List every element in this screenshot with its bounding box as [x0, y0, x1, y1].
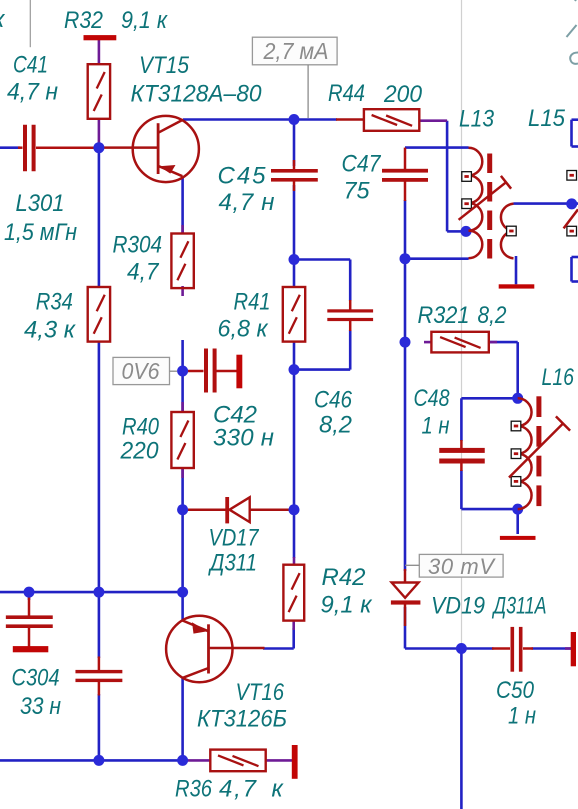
lead C47 bottom	[404, 180, 407, 201]
junction dot node A	[289, 114, 300, 125]
wire node A down through C45 to node B	[293, 120, 296, 260]
label Д311	[207, 550, 257, 577]
svg-text:2,7 мА: 2,7 мА	[263, 38, 329, 64]
wire C47 bottom to node D	[404, 200, 407, 259]
transistor VT16	[166, 616, 232, 682]
capacitor mid	[75, 670, 122, 682]
label C48	[414, 385, 451, 412]
label 4,7	[127, 259, 160, 286]
junction dot VD17 right	[289, 504, 300, 515]
lead R32 top	[98, 39, 101, 65]
label 200	[383, 81, 423, 108]
label L301	[16, 190, 65, 217]
label R42	[322, 564, 366, 591]
lead C304 top	[28, 597, 31, 617]
wire R40 bottom to VD17 left node	[181, 468, 184, 510]
svg-text:R40: R40	[122, 414, 160, 441]
wire base node vertical R32-R34 column	[98, 142, 101, 288]
svg-text:L15: L15	[528, 105, 566, 132]
svg-text:C47: C47	[342, 151, 382, 178]
svg-text:1 н: 1 н	[422, 413, 450, 440]
svg-text:L13: L13	[459, 106, 495, 133]
junction dot C304 rail	[24, 587, 35, 598]
label C304	[12, 665, 60, 692]
lead R36 right	[266, 759, 292, 762]
label 9,1 к	[321, 592, 374, 619]
label 4,7	[219, 776, 258, 803]
lead C42 right	[217, 370, 237, 373]
wire node D down to R321 node	[404, 259, 407, 342]
wire node B down through R41 to node C	[293, 260, 296, 370]
label fragment к top-left	[0, 6, 6, 33]
label 6,8 к	[218, 316, 270, 343]
label R40	[122, 414, 160, 441]
label L15	[528, 105, 566, 132]
resistor R34	[88, 287, 110, 342]
power bar top	[84, 35, 117, 40]
label fragment top-right 1	[575, 0, 578, 1]
label fragment top-right 3	[570, 53, 578, 64]
wire L13 secondary bottom to ground bar	[515, 256, 518, 284]
wire VD17 left node down to emitter rail	[181, 510, 184, 592]
svg-text:C41: C41	[13, 52, 48, 79]
label C47	[342, 151, 382, 178]
pin square L16 3	[511, 477, 521, 487]
wire R304 bottom to 0V6 node	[181, 340, 184, 371]
svg-text:9,1 к: 9,1 к	[321, 592, 374, 619]
lead R40 bottom	[181, 468, 184, 479]
label fragment top-right 2	[567, 25, 577, 37]
wire bottom rail y760	[0, 759, 185, 762]
junction dot L16 bottom	[512, 504, 523, 515]
junction dot node D	[400, 253, 411, 264]
wire VT16 collector down to bottom rail	[181, 678, 184, 761]
label VT15	[139, 52, 190, 79]
svg-text:4,3 к: 4,3 к	[24, 317, 77, 344]
annotation 30 mV	[405, 554, 503, 579]
svg-text:R32: R32	[64, 7, 103, 34]
label R34	[36, 289, 73, 316]
svg-text:6,8 к: 6,8 к	[218, 316, 270, 343]
wire mid capacitor branch bottom	[98, 694, 101, 760]
svg-text:R42: R42	[322, 564, 366, 591]
label 8,2	[319, 412, 352, 439]
lead R42 top	[293, 557, 296, 566]
wire node C down to VD17 right node	[293, 370, 296, 510]
lead C45 stubs	[293, 160, 296, 191]
diode VD19	[391, 583, 421, 605]
label R32	[64, 7, 103, 34]
label R321	[418, 302, 470, 329]
label Д311А	[491, 593, 546, 620]
label L16	[542, 364, 575, 391]
capacitor C304	[6, 615, 53, 628]
label 330 н	[213, 425, 274, 452]
junction dot 0V6 node	[177, 366, 188, 377]
svg-text:4,7: 4,7	[127, 259, 160, 286]
wire VD19 corner right to C50 node	[405, 647, 461, 650]
label 4,7 н	[219, 189, 275, 216]
wire R321 right corner down to L16 top node	[489, 342, 518, 398]
inductor L13 primary winding	[469, 148, 483, 258]
lead base VT15	[101, 146, 158, 149]
lead R44 right	[419, 119, 447, 122]
label 1,5 мГн	[4, 219, 77, 246]
label 9,1 к	[121, 7, 168, 34]
capacitor C42	[204, 349, 217, 393]
core L16	[536, 396, 541, 506]
label C45	[218, 163, 267, 190]
wire C41 left to edge	[0, 146, 20, 149]
lead VD17 right	[250, 508, 290, 511]
label C41	[13, 52, 48, 79]
resistor R36	[210, 750, 265, 772]
wire R44 right corner down to L13 tap	[447, 121, 463, 232]
label VT16	[236, 679, 285, 706]
lead VD17 left	[186, 508, 226, 511]
label КТ3126Б	[197, 706, 287, 733]
lead C42 left	[187, 370, 204, 373]
wire R34 bottom to rail	[98, 341, 101, 592]
lead VD19 cathode	[404, 604, 407, 626]
svg-text:30 mV: 30 mV	[428, 554, 496, 579]
wire R321 node down to VD19	[404, 342, 407, 571]
capacitor C46	[327, 309, 373, 321]
junction dot L16 top	[512, 393, 523, 404]
trimmer arrow L15 fragment	[564, 209, 578, 228]
label 33 н	[20, 693, 61, 720]
lead C47 top	[404, 148, 407, 170]
lead C48 stubs	[460, 440, 463, 471]
svg-text:0V6: 0V6	[122, 358, 160, 384]
label 1 н	[508, 703, 536, 730]
label 8,2	[478, 302, 507, 329]
label VD17	[209, 525, 260, 552]
pin square L16 1	[511, 421, 521, 431]
lead C50 right	[523, 647, 533, 650]
svg-text:КТ3128А–80: КТ3128А–80	[131, 81, 263, 108]
svg-text:33 н: 33 н	[20, 693, 61, 720]
svg-text:C50: C50	[496, 677, 535, 704]
lead C50 bar	[565, 647, 572, 650]
lead C304 bottom	[28, 627, 31, 647]
inductor L16 winding	[518, 398, 532, 509]
label 4,7 н	[7, 79, 58, 106]
wire VT16 emitter up to rail	[181, 592, 184, 621]
wire C304 branch	[28, 592, 31, 600]
lead R44 left	[336, 118, 365, 121]
lead VT16 base	[209, 647, 265, 650]
capacitor C41	[23, 125, 36, 172]
ground bar C304	[13, 646, 49, 652]
lead R32 bottom	[98, 118, 101, 144]
pin square L13 secondary	[507, 226, 517, 236]
junction dot L15 tap	[566, 198, 577, 209]
lead VD19 anode	[404, 569, 407, 583]
svg-text:C45: C45	[218, 163, 267, 190]
svg-text:Д311А: Д311А	[491, 593, 546, 620]
svg-text:VT16: VT16	[236, 679, 285, 706]
wire VD19 cathode down to C50 row corner	[404, 607, 407, 649]
junction dot node C	[289, 364, 300, 375]
wire VT15 collector to node A	[183, 118, 294, 121]
junction dot base node	[93, 142, 104, 153]
wire rail left y592	[0, 591, 183, 594]
svg-text:к: к	[272, 776, 285, 803]
lead C50 left	[492, 647, 510, 650]
junction dot node B	[289, 254, 300, 265]
resistor R42	[283, 565, 304, 621]
wire node D to L13 primary bottom	[405, 257, 469, 260]
ground bar L13	[499, 284, 535, 288]
capacitor C48	[439, 448, 485, 464]
diode VD17	[225, 497, 249, 523]
inductor L15 fragment squares	[567, 171, 577, 236]
wire L15 top stub	[572, 120, 578, 147]
pin square L13 primary 2	[462, 199, 472, 209]
junction dot L13 tap	[461, 226, 472, 237]
svg-text:75: 75	[344, 178, 371, 205]
pin square L16 2	[511, 449, 521, 459]
svg-text:4,7 н: 4,7 н	[7, 79, 58, 106]
pin square L13 primary 1	[462, 172, 472, 182]
wire C50 node down to bottom edge	[460, 649, 463, 809]
lead mid capacitor stubs	[98, 657, 101, 696]
label C50	[496, 677, 535, 704]
svg-text:1,5 мГн: 1,5 мГн	[4, 219, 77, 246]
resistor R44	[364, 109, 419, 131]
junction dot VD17 left	[177, 504, 188, 515]
wire L16 bottom node to ground bar	[516, 509, 519, 534]
resistor R32	[88, 64, 110, 119]
junction dot R321 node	[400, 337, 411, 348]
capacitor C50	[511, 627, 523, 672]
junction dot mid cap rail	[93, 587, 104, 598]
rail bar R36	[292, 745, 298, 779]
svg-text:4,7: 4,7	[219, 776, 258, 803]
svg-text:КТ3126Б: КТ3126Б	[197, 706, 287, 733]
capacitor C45	[271, 169, 318, 182]
resistor R40	[171, 412, 193, 468]
junction dot bottom rail mid cap	[93, 755, 104, 766]
label 1 н	[422, 413, 450, 440]
page boundary line	[461, 0, 463, 809]
wire mid capacitor branch top	[98, 592, 101, 658]
lead C46 stubs	[349, 300, 352, 331]
svg-text:330 н: 330 н	[213, 425, 274, 452]
resistor R304	[171, 234, 193, 289]
trimmer arrow L13	[459, 176, 512, 220]
svg-text:C304: C304	[12, 665, 60, 692]
lead R304 top	[181, 225, 184, 234]
junction dot VT16 emitter rail	[177, 587, 188, 598]
svg-text:VD19: VD19	[431, 593, 485, 620]
label R36	[175, 776, 213, 803]
svg-text:9,1 к: 9,1 к	[121, 7, 168, 34]
wire C50 node to C50	[461, 647, 493, 650]
junction dot C50 node	[456, 643, 467, 654]
label 4,3 к	[24, 317, 77, 344]
wire 0V6 node to R40	[181, 371, 184, 412]
wire C47 top to L13 primary top	[405, 146, 469, 149]
annotation 0V6	[113, 357, 177, 384]
callout line remnant top-left	[29, 0, 31, 47]
label C42	[213, 402, 257, 429]
lead R40 top	[181, 402, 184, 413]
resistor R321	[431, 332, 488, 353]
rail bar C42	[236, 355, 242, 389]
label C46	[314, 387, 353, 414]
wire L13 secondary top to L15 tap	[514, 202, 578, 205]
label R304	[113, 232, 163, 259]
label R41	[234, 289, 271, 316]
label 75	[344, 178, 371, 205]
svg-text:C48: C48	[414, 385, 451, 412]
wire VT15 emitter down to R304	[181, 177, 184, 235]
wire R42 top from VD17 right node	[293, 510, 296, 558]
lead R36 left	[186, 759, 211, 762]
trimmer arrow L16	[509, 416, 570, 477]
wire node A to R44	[294, 118, 337, 121]
wire C48 loop	[461, 398, 517, 509]
transistor VT15	[133, 116, 199, 182]
svg-text:R41: R41	[234, 289, 271, 316]
svg-text:4,7 н: 4,7 н	[219, 189, 275, 216]
wire C46 loop	[294, 260, 350, 370]
label КТ3128А–80	[131, 81, 263, 108]
wire R42 bottom corner to VT16 base	[263, 628, 294, 649]
ground bar L16	[500, 536, 536, 540]
svg-text:1 н: 1 н	[508, 703, 536, 730]
label VD19	[431, 593, 485, 620]
svg-text:8,2: 8,2	[319, 412, 352, 439]
annotation 2,7 мА	[252, 37, 337, 118]
svg-text:R44: R44	[328, 80, 365, 107]
rail bar C50	[571, 632, 576, 666]
svg-text:R36: R36	[175, 776, 213, 803]
inductor L13 secondary winding	[501, 204, 514, 259]
label к	[272, 776, 285, 803]
svg-text:220: 220	[120, 438, 160, 465]
svg-text:Д311: Д311	[207, 550, 257, 577]
svg-text:R321: R321	[418, 302, 470, 329]
label 220	[120, 438, 160, 465]
svg-text:VD17: VD17	[209, 525, 260, 552]
lead R42 bottom	[292, 620, 295, 630]
lead R304 bottom	[181, 286, 184, 296]
svg-text:200: 200	[383, 81, 423, 108]
svg-text:C46: C46	[314, 387, 353, 414]
svg-text:R304: R304	[113, 232, 163, 259]
junction dot bottom rail VT16	[177, 755, 188, 766]
svg-text:8,2: 8,2	[478, 302, 507, 329]
lead R321 right	[489, 341, 498, 344]
capacitor C47	[382, 169, 428, 182]
wire L15 bottom stub	[572, 257, 578, 282]
svg-text:L301: L301	[16, 190, 65, 217]
label R44	[328, 80, 365, 107]
core L13	[487, 154, 492, 259]
wire C50 right to edge bar	[532, 647, 572, 650]
label L13	[459, 106, 495, 133]
lead C41 stubs	[18, 146, 95, 149]
svg-text:R34: R34	[36, 289, 73, 316]
svg-text:VT15: VT15	[139, 52, 190, 79]
resistor R41	[283, 287, 305, 342]
svg-text:L16: L16	[542, 364, 575, 391]
lead R321 left	[424, 341, 432, 344]
